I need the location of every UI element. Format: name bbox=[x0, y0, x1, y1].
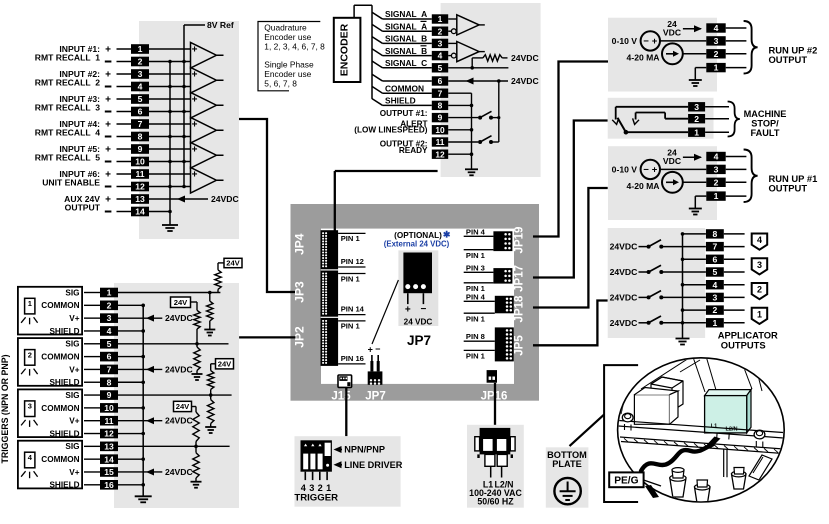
svg-text:3: 3 bbox=[438, 39, 443, 49]
terminal 14 label bbox=[65, 203, 112, 213]
encoder pin 4 bbox=[432, 51, 448, 61]
machine stop brace bbox=[728, 102, 740, 137]
svg-text:ENCODER: ENCODER bbox=[339, 23, 351, 76]
svg-text:24VDC: 24VDC bbox=[610, 242, 638, 252]
svg-text:7: 7 bbox=[438, 88, 443, 98]
PE/G label bbox=[609, 472, 643, 487]
pull-down R9 bbox=[191, 445, 202, 488]
wire pin 14 to ground bus bbox=[118, 458, 143, 460]
encoder lead 8 bbox=[372, 99, 432, 106]
stud B bbox=[695, 480, 711, 503]
svg-text:3: 3 bbox=[714, 36, 719, 46]
svg-text:11: 11 bbox=[436, 137, 445, 147]
svg-text:1: 1 bbox=[694, 127, 699, 137]
svg-text:PE/G: PE/G bbox=[614, 476, 638, 487]
svg-text:4: 4 bbox=[714, 152, 719, 162]
svg-text:Quadrature: Quadrature bbox=[264, 23, 307, 33]
svg-text:SIG: SIG bbox=[65, 442, 79, 451]
svg-text:3: 3 bbox=[714, 165, 719, 175]
wire to pin 12 bbox=[84, 433, 100, 435]
svg-text:6: 6 bbox=[438, 76, 443, 86]
rail hatch ticks bbox=[624, 438, 778, 452]
wire pin 6 to buses bbox=[149, 111, 191, 113]
svg-text:Single Phase: Single Phase bbox=[264, 60, 314, 70]
pin 10 bbox=[131, 157, 149, 167]
wire to pin 4 bbox=[84, 330, 100, 332]
output brace bbox=[744, 150, 758, 203]
wire JP16 to power connector bbox=[494, 383, 496, 428]
wire to brace bbox=[726, 67, 747, 69]
wire label to pin 9 bbox=[117, 148, 132, 150]
wire pin 12 to ground bus bbox=[118, 433, 143, 435]
svg-text:9: 9 bbox=[138, 144, 143, 154]
svg-text:STOP/: STOP/ bbox=[751, 119, 779, 129]
svg-text:SIGNAL A: SIGNAL A bbox=[385, 9, 427, 19]
trigger dip switch panel bbox=[295, 436, 401, 507]
svg-text:SHIELD: SHIELD bbox=[49, 429, 79, 438]
wire to brace bbox=[705, 131, 729, 133]
trigger pin 4 bbox=[100, 326, 118, 336]
common/shield ground bus bbox=[448, 93, 473, 169]
0-10V source bbox=[612, 160, 660, 179]
pin 4 bbox=[706, 23, 725, 33]
wire to pin 2 bbox=[84, 304, 100, 306]
svg-text:+: + bbox=[405, 305, 411, 316]
svg-text:PIN 1: PIN 1 bbox=[466, 352, 486, 361]
svg-text:5: 5 bbox=[438, 63, 443, 73]
pin 3 bbox=[706, 36, 725, 46]
svg-text:4: 4 bbox=[107, 326, 112, 336]
svg-text:0-10 V: 0-10 V bbox=[612, 36, 638, 46]
encoder lead 1 bbox=[372, 12, 432, 19]
svg-text:50/60 HZ: 50/60 HZ bbox=[477, 496, 514, 506]
svg-text:14: 14 bbox=[135, 207, 145, 217]
output badge 4 bbox=[752, 234, 768, 250]
svg-text:10: 10 bbox=[104, 403, 114, 413]
bottom plate panel bbox=[546, 447, 589, 507]
svg-text:5, 6, 7, 8: 5, 6, 7, 8 bbox=[264, 79, 297, 89]
svg-text:COMMON: COMMON bbox=[385, 83, 424, 93]
detail bracket bbox=[604, 365, 638, 502]
trigger pin 15 bbox=[100, 467, 118, 477]
wire JP5 to applicator outputs bbox=[533, 301, 608, 346]
svg-text:12: 12 bbox=[435, 149, 445, 159]
sensor box 3 bbox=[18, 389, 82, 437]
applicator ground bbox=[676, 339, 690, 345]
leader to JP7 jumper bbox=[372, 280, 398, 344]
wire pin 4 to ground bus bbox=[118, 330, 143, 332]
connector JP5 bbox=[464, 327, 514, 361]
svg-text:+: + bbox=[192, 169, 198, 180]
pin 6 bbox=[131, 107, 149, 117]
connector JP3 bbox=[321, 271, 366, 317]
wire bus to pin 8 bbox=[683, 233, 706, 235]
svg-text:PIN 1: PIN 1 bbox=[466, 314, 486, 323]
svg-text:4: 4 bbox=[438, 51, 443, 61]
applicator pin 5 bbox=[706, 267, 724, 277]
trigger pin 3 bbox=[100, 313, 118, 323]
signal label 7 bbox=[385, 83, 424, 93]
0-10V source bbox=[612, 31, 660, 50]
trigger pin 2 bbox=[100, 300, 118, 310]
common ground bus bbox=[168, 60, 172, 225]
controller board bbox=[291, 204, 540, 401]
svg-text:1: 1 bbox=[438, 14, 443, 24]
encoder pin 8 bbox=[432, 101, 448, 111]
trigger pin 1 bbox=[100, 288, 118, 298]
svg-text:PIN 8: PIN 8 bbox=[466, 332, 485, 341]
svg-text:14: 14 bbox=[104, 454, 114, 464]
applicator outputs panel bbox=[608, 228, 705, 338]
encoder pin 5 bbox=[432, 63, 448, 73]
power labels bbox=[469, 479, 522, 506]
label RUN UP #1 bbox=[769, 173, 818, 194]
wire encoder common to JP4 bbox=[335, 171, 438, 231]
24VDC bus to relay contacts bbox=[498, 81, 500, 142]
pin 1 bbox=[706, 191, 725, 201]
stud A bbox=[670, 468, 686, 497]
svg-text:MACHINE: MACHINE bbox=[744, 109, 787, 119]
encoder ground bbox=[465, 169, 478, 175]
chassis walls hatching bbox=[621, 356, 776, 414]
machine stop pin 3 bbox=[688, 102, 705, 112]
encoder lead 3 bbox=[372, 37, 432, 44]
SIG 4 line bbox=[118, 445, 230, 447]
PE/G leader bbox=[644, 480, 661, 498]
pin 4 bbox=[706, 152, 725, 162]
wire bus to pin 2 bbox=[683, 309, 706, 311]
applicator pin 8 bbox=[706, 229, 724, 239]
wire pin 4 to buses bbox=[149, 86, 191, 88]
svg-text:+: + bbox=[192, 119, 198, 130]
svg-text:16: 16 bbox=[104, 480, 114, 490]
wire label to pin 8 bbox=[117, 136, 132, 138]
svg-text:COMMON: COMMON bbox=[41, 353, 79, 362]
svg-text:−: − bbox=[643, 165, 649, 176]
svg-text:COMMON: COMMON bbox=[41, 404, 79, 413]
wire to badge bbox=[724, 284, 745, 286]
svg-text:2: 2 bbox=[138, 57, 143, 67]
svg-text:12: 12 bbox=[135, 182, 145, 192]
output badge 2 bbox=[752, 283, 768, 299]
wire label to pin 5 bbox=[117, 98, 132, 100]
svg-text:PIN 14: PIN 14 bbox=[341, 305, 365, 314]
svg-text:OUTPUT: OUTPUT bbox=[769, 54, 808, 65]
connector JP16 icon bbox=[487, 370, 497, 383]
svg-text:JP7: JP7 bbox=[407, 333, 431, 348]
svg-text:JP4: JP4 bbox=[293, 233, 307, 255]
wire to badge bbox=[724, 309, 745, 311]
signal label 5 bbox=[385, 58, 427, 68]
svg-text:OUTPUT: OUTPUT bbox=[65, 203, 101, 213]
svg-text:5: 5 bbox=[712, 267, 717, 277]
24VDC switch for pin 1 bbox=[610, 316, 706, 328]
connector JP2 bbox=[321, 318, 366, 366]
trigger pin 5 bbox=[100, 339, 118, 349]
svg-text:L2/N: L2/N bbox=[725, 427, 737, 433]
encoder pin 12 bbox=[432, 149, 448, 159]
svg-text:JP7: JP7 bbox=[365, 391, 385, 403]
svg-text:PIN 1: PIN 1 bbox=[341, 274, 361, 283]
trigger pin 13 bbox=[100, 441, 118, 451]
24V pull-up R8 bbox=[174, 401, 200, 446]
wire pin 12 to buses bbox=[149, 186, 191, 188]
pull-up resistor R1 to 24VDC bbox=[472, 53, 539, 68]
svg-text:COMMON: COMMON bbox=[41, 301, 79, 310]
bottom plate label bbox=[547, 450, 587, 469]
svg-text:7: 7 bbox=[107, 365, 112, 375]
bolt left bbox=[622, 413, 633, 430]
power connector bbox=[475, 428, 515, 478]
wire pin 7 to comparator input bbox=[149, 123, 191, 125]
svg-text:RMT RECALL 2: RMT RECALL 2 bbox=[35, 78, 100, 88]
machine stop label bbox=[744, 109, 787, 138]
wire JP17 to machine stop bbox=[533, 121, 608, 278]
svg-text:7: 7 bbox=[138, 119, 143, 129]
wire pin 3 to comparator input bbox=[149, 73, 191, 75]
svg-text:3: 3 bbox=[28, 402, 32, 411]
applicator pin 2 bbox=[706, 305, 724, 315]
svg-text:24VDC: 24VDC bbox=[511, 53, 539, 63]
wire pin 5 to comparator input bbox=[149, 98, 191, 100]
svg-text:24VDC: 24VDC bbox=[610, 267, 638, 277]
wire pin 2 to ground bus bbox=[118, 304, 143, 306]
output brace bbox=[744, 21, 758, 74]
pin 7 bbox=[131, 119, 149, 129]
svg-text:24V: 24V bbox=[174, 298, 188, 307]
wire J15 to trigger dip switch bbox=[345, 388, 347, 437]
JP7 power block bbox=[403, 253, 432, 327]
trigger pin 8 bbox=[100, 377, 118, 387]
svg-text:SHIELD: SHIELD bbox=[49, 327, 79, 336]
sensor box 4 bbox=[18, 441, 82, 489]
svg-text:V+: V+ bbox=[69, 314, 79, 323]
svg-text:3: 3 bbox=[694, 102, 699, 112]
svg-text:READY: READY bbox=[399, 146, 428, 155]
sensor box 2 bbox=[18, 338, 82, 386]
terminal 5 label bbox=[59, 94, 111, 105]
svg-text:JP19: JP19 bbox=[514, 227, 526, 254]
wire to pin 10 bbox=[84, 407, 100, 409]
wire pin 9 to comparator input bbox=[149, 148, 191, 150]
wire to badge bbox=[724, 258, 745, 260]
svg-text:24VDC: 24VDC bbox=[165, 364, 193, 374]
terminal 13 label bbox=[64, 194, 111, 205]
svg-text:7: 7 bbox=[712, 242, 717, 252]
wire to brace bbox=[726, 40, 747, 42]
wire pin 13 aux 24V bbox=[149, 198, 208, 200]
encoder pin 11 bbox=[432, 137, 448, 147]
svg-text:(LOW LINESPEED): (LOW LINESPEED) bbox=[354, 126, 428, 135]
pin 3 bbox=[131, 69, 149, 79]
encoder pin 1 bbox=[432, 14, 448, 24]
output labels bbox=[354, 109, 428, 155]
wire to brace bbox=[705, 118, 729, 120]
buffer U7 signal A bbox=[448, 15, 485, 35]
detail circle bbox=[618, 358, 785, 502]
wire label to pin 14 bbox=[117, 211, 132, 213]
svg-text:V+: V+ bbox=[69, 468, 79, 477]
wire bus to pin 4 bbox=[683, 284, 706, 286]
signal label 2 bbox=[385, 21, 427, 31]
applicator pin 1 bbox=[706, 318, 724, 328]
4-20mA source bbox=[627, 43, 683, 64]
pin 13 bbox=[131, 194, 149, 204]
machine stop panel bbox=[608, 98, 714, 139]
svg-text:+: + bbox=[105, 194, 111, 205]
applicator label bbox=[718, 329, 778, 350]
trigger pin 14 bbox=[100, 454, 118, 464]
24VDC feed pin 6 bbox=[448, 76, 539, 86]
wire pin 8 to buses bbox=[149, 136, 191, 138]
encoder pin 3 bbox=[432, 39, 448, 49]
svg-text:−: − bbox=[375, 344, 380, 354]
svg-text:24VDC: 24VDC bbox=[165, 416, 193, 426]
svg-text:PIN 4: PIN 4 bbox=[466, 292, 486, 301]
svg-text:3: 3 bbox=[757, 260, 762, 270]
svg-text:4: 4 bbox=[712, 280, 717, 290]
pin 8 bbox=[131, 132, 149, 142]
wire triggers to JP2 bbox=[239, 336, 295, 338]
wire to pin 7 bbox=[84, 368, 100, 370]
svg-text:13: 13 bbox=[135, 194, 145, 204]
relay SPDT contact bbox=[612, 107, 688, 135]
trigger pin 7 bbox=[100, 365, 118, 375]
machine stop pin 2 bbox=[688, 114, 705, 124]
wire encoder common into JP4 over board bbox=[334, 204, 336, 231]
svg-text:+: + bbox=[105, 94, 111, 105]
wire pin 14 to ground bus bbox=[149, 211, 170, 213]
connector J15 icon bbox=[338, 375, 352, 387]
svg-text:24VDC: 24VDC bbox=[511, 76, 539, 86]
svg-text:COMMON: COMMON bbox=[41, 455, 79, 464]
svg-text:SIGNAL B: SIGNAL B bbox=[385, 46, 427, 56]
trigger pin 12 bbox=[100, 429, 118, 439]
terminal 1 label bbox=[59, 44, 111, 55]
wire pin 11 to comparator input bbox=[149, 173, 191, 175]
wire to badge bbox=[724, 246, 745, 248]
svg-text:6: 6 bbox=[712, 254, 717, 264]
svg-text:PIN 1: PIN 1 bbox=[466, 251, 486, 260]
op-amp A4 bbox=[191, 117, 224, 143]
pull-down R5 bbox=[192, 342, 203, 380]
terminal 10 label bbox=[35, 153, 112, 163]
svg-text:+: + bbox=[652, 165, 658, 176]
svg-text:+: + bbox=[192, 69, 198, 80]
svg-text:3: 3 bbox=[712, 293, 717, 303]
wires to pins bbox=[660, 41, 706, 54]
connector JP18 bbox=[464, 292, 514, 323]
applicator pin 7 bbox=[706, 242, 724, 252]
pull-down R3 bbox=[204, 291, 215, 336]
wire to brace bbox=[726, 53, 747, 55]
terminal 2 label bbox=[35, 53, 112, 63]
svg-text:4 3 2 1: 4 3 2 1 bbox=[301, 483, 332, 493]
wire JP19 to run-up 2 bbox=[533, 62, 609, 237]
svg-text:1, 2, 3, 4, 6, 7, 8: 1, 2, 3, 4, 6, 7, 8 bbox=[264, 42, 325, 52]
applicator pin 6 bbox=[706, 254, 724, 264]
power entry panel bbox=[467, 425, 524, 508]
pin1 ground bbox=[689, 68, 707, 86]
svg-text:24V: 24V bbox=[218, 359, 232, 368]
applicator pin 3 bbox=[706, 293, 724, 303]
svg-text:+: + bbox=[192, 144, 198, 155]
svg-text:24VDC: 24VDC bbox=[165, 467, 193, 477]
wire bus to pin 6 bbox=[683, 258, 706, 260]
svg-text:2: 2 bbox=[28, 350, 32, 359]
pin 2 bbox=[131, 57, 149, 67]
svg-text:VDC: VDC bbox=[663, 28, 681, 38]
svg-text:+: + bbox=[192, 94, 198, 105]
terminal pins bbox=[717, 433, 730, 440]
svg-text:24VDC: 24VDC bbox=[211, 194, 239, 204]
svg-text:13: 13 bbox=[104, 441, 114, 451]
8V reference bus bbox=[182, 25, 186, 188]
wire to pin 8 bbox=[84, 381, 100, 383]
svg-text:4: 4 bbox=[714, 23, 719, 33]
trigger pin 6 bbox=[100, 352, 118, 362]
svg-text:24 VDC: 24 VDC bbox=[404, 318, 433, 327]
trigger main ground bbox=[135, 496, 152, 502]
trigger pin 10 bbox=[100, 403, 118, 413]
op-amp A1 bbox=[191, 42, 224, 68]
svg-text:Encoder use: Encoder use bbox=[264, 32, 311, 42]
svg-text:0-10 V: 0-10 V bbox=[612, 164, 638, 174]
stud C bbox=[732, 468, 747, 490]
svg-text:RMT RECALL 4: RMT RECALL 4 bbox=[35, 128, 100, 138]
trigger section panel bbox=[114, 283, 239, 508]
wire to badge bbox=[724, 322, 745, 324]
svg-text:5: 5 bbox=[138, 94, 143, 104]
wire pin 10 to buses bbox=[149, 161, 191, 163]
svg-text:SHIELD: SHIELD bbox=[49, 481, 79, 490]
trigger ground bus bbox=[141, 304, 145, 496]
24VDC switch for pin 3 bbox=[610, 291, 706, 303]
pin 14 bbox=[131, 207, 149, 217]
svg-text:JP3: JP3 bbox=[293, 281, 307, 303]
svg-text:TRIGGERS (NPN OR PNP): TRIGGERS (NPN OR PNP) bbox=[0, 354, 10, 463]
svg-text:8: 8 bbox=[438, 101, 443, 111]
svg-text:3: 3 bbox=[107, 313, 112, 323]
wire to brace bbox=[726, 156, 747, 158]
svg-text:+: + bbox=[105, 69, 111, 80]
wire JP18 to run-up 1 bbox=[533, 188, 608, 308]
encoder section panel bbox=[441, 3, 541, 177]
trigger pin 11 bbox=[100, 416, 118, 426]
terminal 8 label bbox=[35, 128, 112, 138]
wire label to pin 3 bbox=[117, 73, 132, 75]
svg-text:VDC: VDC bbox=[663, 156, 681, 166]
svg-text:RMT RECALL 3: RMT RECALL 3 bbox=[35, 103, 100, 113]
wire label to pin 13 bbox=[117, 198, 132, 200]
svg-text:15: 15 bbox=[104, 467, 114, 477]
svg-text:JP17: JP17 bbox=[514, 265, 526, 292]
svg-text:+: + bbox=[652, 36, 658, 47]
pin 1 bbox=[706, 63, 725, 73]
svg-text:4-20 MA: 4-20 MA bbox=[627, 52, 660, 62]
wire to pin 14 bbox=[84, 458, 100, 460]
24VDC feed pin 15 bbox=[118, 467, 193, 477]
machine stop pin 1 bbox=[688, 127, 705, 137]
svg-text:2: 2 bbox=[438, 26, 443, 36]
wire to pin 1 bbox=[84, 292, 100, 294]
encoder box bbox=[334, 18, 361, 82]
wire to brace bbox=[726, 27, 747, 29]
svg-text:LINE DRIVER: LINE DRIVER bbox=[344, 460, 403, 470]
signal label 3 bbox=[385, 34, 427, 44]
wire pin 1 to comparator input bbox=[149, 48, 191, 50]
output badge 1 bbox=[752, 308, 768, 324]
